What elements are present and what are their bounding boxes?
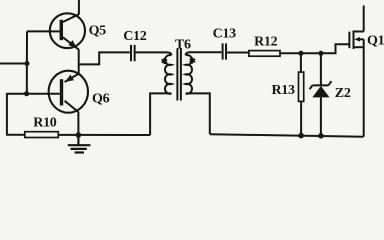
zener diode Z2: [310, 53, 332, 136]
wire R13 top: [300, 53, 302, 72]
node ground junction: [76, 132, 82, 138]
svg-text:R13: R13: [272, 83, 296, 98]
node R13 top junction: [298, 51, 303, 56]
svg-text:R12: R12: [254, 34, 278, 49]
node Z2 bottom junction: [318, 133, 324, 139]
node Z2 top junction: [318, 51, 323, 56]
node R13 bottom junction: [298, 133, 304, 139]
wire collector Q5 to top edge: [78, 0, 80, 15]
wire emitters to C12 (stepped): [79, 52, 130, 64]
node input-base junction: [25, 61, 30, 66]
svg-text:Q5: Q5: [89, 24, 107, 39]
wire emitter Q5 to emitter Q6: [78, 49, 80, 74]
secondary winding: [186, 55, 192, 94]
svg-text:Z2: Z2: [335, 86, 351, 101]
wire C12 to T6 primary: [135, 52, 172, 55]
svg-text:Q6: Q6: [92, 92, 110, 107]
resistor R10: [25, 132, 59, 138]
wire bottom left rail: [6, 134, 150, 136]
transistor Q5: [27, 13, 85, 49]
wire T6 secondary top to C13: [186, 52, 222, 55]
primary winding: [165, 55, 171, 94]
svg-text:Q1: Q1: [367, 34, 384, 49]
resistor R13: [299, 72, 304, 101]
svg-text:R10: R10: [33, 116, 57, 131]
wire base bus vertical: [26, 31, 28, 93]
resistor R12: [249, 51, 280, 57]
wire bottom right rail: [210, 134, 364, 137]
wire T6 primary bottom to ground rail: [150, 93, 171, 135]
polarity dot primary: [162, 58, 167, 64]
polarity dot secondary: [190, 57, 195, 63]
capacitor C13: [223, 43, 226, 59]
capacitor C12: [131, 45, 135, 61]
wire R12 to gate step: [280, 44, 349, 53]
svg-text:C13: C13: [213, 27, 237, 42]
wire C13 to R12: [226, 52, 249, 54]
transformer T6: [162, 49, 196, 101]
MOSFET Q1: [349, 6, 363, 137]
wire collector Q6 down to ground rail: [77, 112, 79, 135]
wire input from left edge: [0, 63, 27, 65]
wire R13 bottom: [300, 101, 302, 135]
core: [176, 49, 178, 101]
svg-text:T6: T6: [175, 38, 191, 53]
transistor Q6: [7, 71, 88, 113]
wire T6 secondary bottom to source rail: [186, 93, 210, 134]
ground: [68, 135, 91, 153]
svg-text:C12: C12: [123, 29, 147, 44]
wire left leg down: [6, 93, 8, 135]
node Q6 base junction: [24, 91, 29, 96]
